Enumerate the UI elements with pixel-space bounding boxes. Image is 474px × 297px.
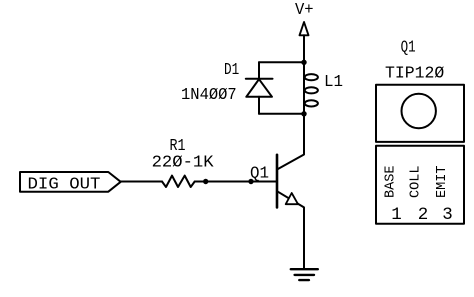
svg-text:TIP12Ø: TIP12Ø [385, 64, 444, 83]
inductor L1 loop 1 [305, 74, 318, 80]
transistor Q1 collector lead [277, 114, 304, 170]
svg-text:22Ø-1K: 22Ø-1K [152, 154, 215, 173]
svg-text:BASE: BASE [383, 166, 399, 199]
junction dot at base node [248, 179, 253, 184]
resistor R1 [162, 176, 195, 187]
transistor Q1 base bar [276, 155, 279, 208]
diode D1 cathode bar [246, 78, 273, 80]
diode D1 triangle [246, 79, 272, 97]
wire resistor to base [195, 181, 277, 183]
wire diode top lead [258, 62, 260, 78]
wire V+ to top rail [303, 35, 305, 62]
svg-text:EMIT: EMIT [434, 166, 450, 199]
wire bottom rail [259, 113, 304, 115]
ground [291, 268, 318, 270]
svg-text:V+: V+ [295, 1, 314, 20]
svg-text:1: 1 [391, 205, 402, 225]
svg-text:DIG OUT: DIG OUT [28, 175, 101, 194]
transistor Q1 emitter lead [277, 191, 304, 269]
package TIP120 upper body outline [376, 85, 464, 142]
junction dot bottom rail [301, 111, 306, 116]
wire diode bottom lead [258, 97, 260, 114]
wire inductor vertical [303, 62, 305, 114]
node DIG OUT flag [20, 172, 121, 192]
transistor Q1 emitter arrow [286, 193, 298, 204]
svg-text:1N4ØØ7: 1N4ØØ7 [181, 86, 237, 105]
svg-text:Q1: Q1 [401, 39, 416, 58]
svg-text:L1: L1 [324, 73, 343, 92]
svg-text:Q1: Q1 [250, 165, 269, 184]
wire top rail to diode branch [259, 61, 304, 63]
svg-text:D1: D1 [224, 61, 239, 80]
junction dot top rail [301, 60, 306, 65]
inductor L1 loop 3 [305, 100, 318, 106]
svg-text:2: 2 [418, 205, 429, 225]
svg-text:3: 3 [442, 205, 453, 225]
wire flag to resistor [121, 181, 162, 183]
V+ arrow [300, 22, 309, 35]
package mounting hole circle [402, 94, 436, 128]
junction dot after resistor [203, 179, 208, 184]
inductor L1 loop 2 [305, 87, 318, 93]
svg-text:COLL: COLL [408, 166, 424, 199]
package TIP120 lower body outline [376, 146, 464, 224]
